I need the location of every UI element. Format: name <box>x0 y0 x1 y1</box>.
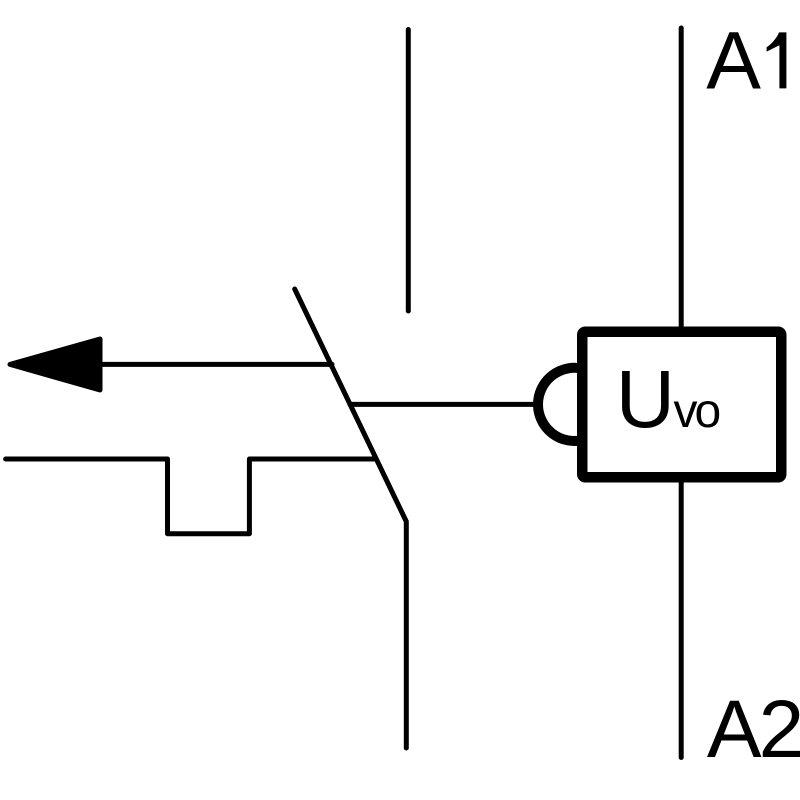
svg-text:vo: vo <box>674 385 720 438</box>
svg-text:U: U <box>616 354 675 445</box>
svg-text:A: A <box>706 15 761 106</box>
svg-text:A2: A2 <box>707 684 800 775</box>
